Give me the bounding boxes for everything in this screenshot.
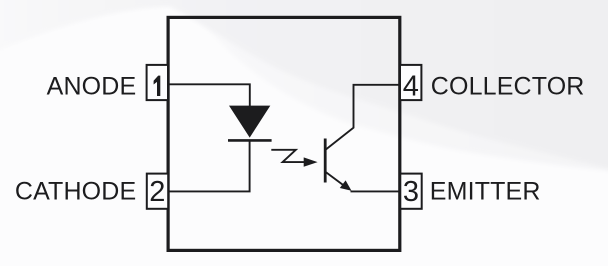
wire emitter to pin 3 (351, 190, 401, 192)
svg-text:3: 3 (403, 176, 419, 208)
wire pin1 to LED anode (169, 84, 250, 106)
pin 1 label (154, 76, 161, 96)
pin 4 box (400, 65, 421, 100)
background gray swoosh watermark upper band (0, 0, 608, 169)
svg-text:EMITTER: EMITTER (430, 178, 541, 206)
svg-text:4: 4 (403, 71, 419, 103)
Q1 emitter arrow head (340, 180, 352, 190)
LED D1 triangle (anode) (229, 106, 270, 138)
svg-text:CATHODE: CATHODE (15, 178, 136, 206)
svg-text:COLLECTOR: COLLECTOR (431, 73, 585, 101)
optocoupler body outline (168, 17, 400, 250)
pin 3 box (400, 174, 421, 209)
light emission zigzag arrow (271, 150, 305, 162)
pin 1 box (147, 65, 168, 100)
wire LED cathode to pin2 (169, 140, 250, 191)
svg-text:ANODE: ANODE (47, 73, 137, 101)
LED cathode bar (228, 139, 272, 142)
Q1 collector lead to pin 4 (326, 85, 400, 150)
pin 2 box (147, 174, 168, 209)
svg-text:2: 2 (149, 176, 165, 208)
phototransistor Q1 base bar (324, 139, 327, 183)
light arrow head (304, 157, 318, 166)
Q1 emitter lead (326, 172, 348, 188)
background gray swoosh watermark lower band (0, 0, 608, 171)
